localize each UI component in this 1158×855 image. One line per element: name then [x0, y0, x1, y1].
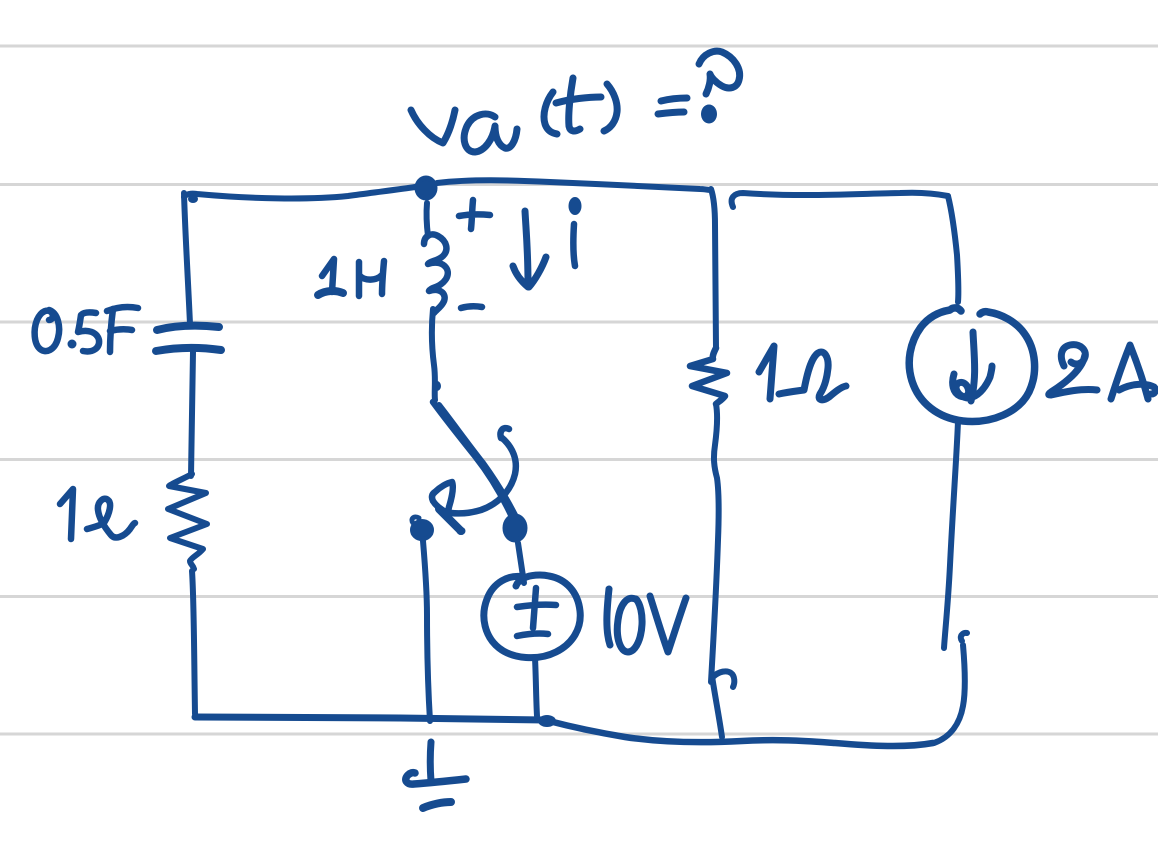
wire: left switch branch down: [423, 541, 430, 721]
resistor left 1Ω zigzag: [168, 474, 207, 569]
wire: left vertical (top): [184, 193, 190, 324]
wire: below current source: [944, 421, 958, 648]
wire: right-middle vertical drop: [711, 189, 716, 348]
label 1Ω right: [759, 346, 846, 400]
label 10V: [607, 589, 686, 652]
current source I1 circle: [909, 308, 1034, 422]
wire: far-right top segment: [732, 193, 948, 207]
wire: right dot to voltage source: [518, 543, 524, 583]
bottom wire (right wavy part): [549, 721, 933, 746]
label i: [569, 197, 582, 215]
label 0.5F: [35, 307, 138, 352]
wire: below voltage source: [535, 658, 537, 716]
wire: below capacitor: [191, 352, 193, 476]
current source arrow: [953, 332, 992, 401]
wire: node to right corner: [437, 180, 711, 190]
bottom-right corner curve: [934, 633, 967, 743]
inductor L1: [427, 203, 428, 236]
tick on right branch: [713, 671, 734, 687]
switch arc arrow: [451, 428, 516, 513]
polarity + (inductor): [459, 200, 490, 229]
switch SW1 blade: [433, 402, 513, 519]
bottom wire (left part): [195, 717, 545, 720]
resistor right 1Ω: [690, 348, 727, 404]
wire: top-left horizontal: [184, 187, 415, 198]
current arrow i: [513, 211, 546, 287]
switch pivot dot right: [505, 516, 525, 540]
wire: inductor to switch: [432, 309, 435, 400]
voltage source V1: [484, 575, 580, 658]
capacitor C1 plates: [157, 326, 219, 330]
polarity - (inductor): [461, 306, 482, 308]
wire: resistor to bottom-left corner: [192, 571, 195, 714]
wire: below right resistor: [711, 404, 722, 737]
switch pivot dot left: [412, 521, 432, 539]
node A dot: [417, 178, 435, 198]
label 2A: [1049, 345, 1156, 399]
wire: far-right vertical drop: [948, 196, 958, 302]
junction blob: [538, 715, 556, 727]
label 1H: [318, 259, 384, 296]
ground: [427, 742, 435, 781]
label Va(t)=?: [411, 51, 740, 152]
label 1Ω left: [60, 489, 135, 539]
